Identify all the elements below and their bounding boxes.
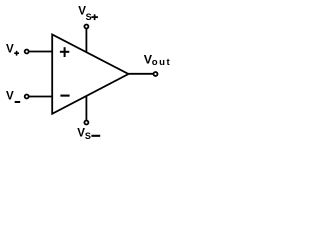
label VS+ (78, 5, 98, 23)
svg-text:S: S (86, 12, 92, 22)
svg-text:V: V (6, 43, 14, 56)
inverting input minus sign (60, 95, 69, 97)
label VS- (77, 127, 100, 142)
svg-text:out: out (152, 57, 170, 68)
wire V- input (29, 96, 53, 98)
non-inverting input plus sign (60, 47, 69, 57)
wire V+ input (29, 51, 53, 53)
terminal circle VS+ (84, 25, 88, 29)
label Vout (144, 53, 171, 68)
terminal circle V- (25, 95, 29, 99)
label V- (6, 89, 20, 102)
wire VS- supply (85, 96, 87, 120)
svg-text:V: V (6, 89, 14, 102)
label V+ (6, 43, 19, 56)
terminal circle VS- (84, 121, 88, 125)
svg-text:S: S (85, 131, 91, 141)
wire VS+ supply (85, 29, 87, 53)
op-amp U1 triangle body (52, 35, 128, 114)
terminal circle Vout (154, 72, 158, 76)
terminal circle V+ (25, 50, 29, 54)
wire Vout output (128, 73, 153, 75)
